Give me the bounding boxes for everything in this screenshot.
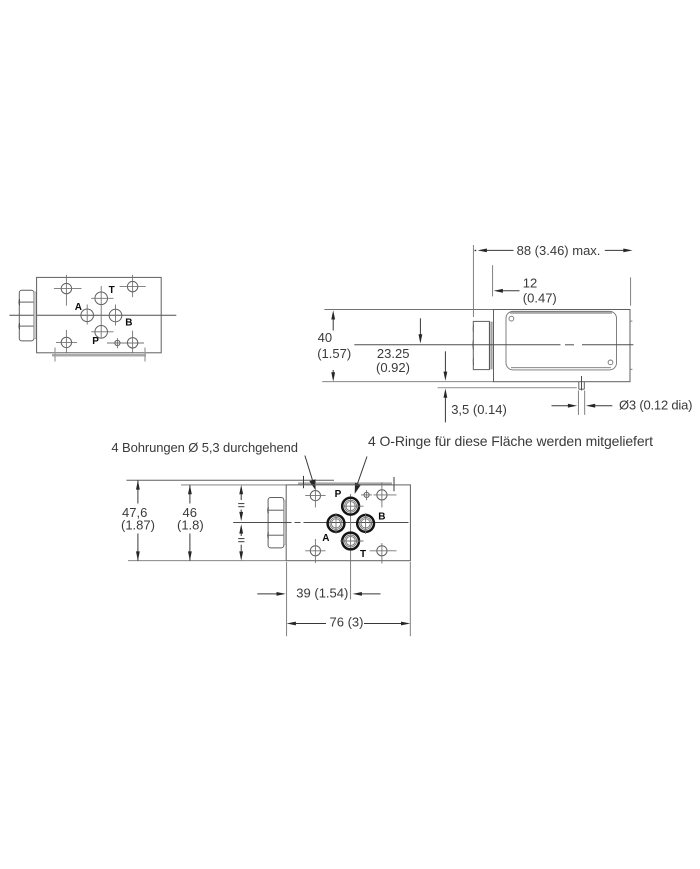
svg-text:B: B [125,317,132,328]
svg-text:88 (3.46) max.: 88 (3.46) max. [517,243,601,258]
svg-text:(1.8): (1.8) [177,518,204,533]
equal-spacing dim lower [239,524,243,533]
dim 76 [287,622,296,626]
right edge tick lower [630,368,633,370]
bottom extension line [128,560,286,562]
pin extension lines [577,391,579,415]
svg-text:4 Bohrungen Ø 5,3 durchgehend: 4 Bohrungen Ø 5,3 durchgehend [111,440,297,455]
svg-text:39 (1.54): 39 (1.54) [296,586,348,601]
hex facet line lower [19,325,34,327]
washer collar [34,292,37,339]
dim 88 left extension line [472,245,474,317]
hex chamfer arc lower [18,323,21,329]
extension line 46 top [181,484,286,486]
dim 88 right extension line [630,277,632,305]
svg-text:12: 12 [523,276,537,291]
bolt hole bottom-right [377,546,387,556]
dim 23.25 arrow [419,318,421,335]
leader to o-ring surface [357,457,367,486]
orifice hole [364,492,369,497]
svg-text:P: P [92,336,99,347]
surface tick left [303,476,305,488]
top view horizontal centerline [9,314,176,316]
top view body [37,277,162,352]
hex chamfer arc upper [18,299,21,305]
svg-text:23.25: 23.25 [377,346,410,361]
svg-text:4 O-Ringe für diese Fläche wer: 4 O-Ringe für diese Fläche werden mitgel… [368,433,653,449]
orifice hole [115,340,120,345]
side view body [494,310,631,382]
dim arrow to body bottom [444,351,446,372]
svg-text:(1.87): (1.87) [121,518,155,533]
dim 88 dimension line and arrows [475,250,477,251]
port B [109,309,122,322]
port A [81,309,94,322]
svg-text:(1.57): (1.57) [317,346,351,361]
svg-text:A: A [322,533,329,544]
port A [328,515,345,532]
dim 39 [257,593,277,595]
dim 40 upper arrow [331,310,335,319]
port P [95,326,108,339]
side view centerline [354,344,560,346]
bolt hole top-left [61,283,71,293]
svg-text:(0.47): (0.47) [523,290,557,305]
svg-text:(0.92): (0.92) [376,360,410,375]
dim 12 dimension line [494,289,503,293]
bolt hole bottom-left [61,337,71,347]
equal-spacing dim upper [239,485,243,494]
surface tick left [54,348,56,362]
extension line 47.6 top [126,479,334,481]
dim 47,6 [137,480,139,503]
port T [95,292,108,305]
hex arc marks [472,325,475,332]
dim 3,5 arrow [444,389,448,398]
mounting surface highlight [52,354,146,357]
port B [357,515,374,532]
dim 76 extension line right [409,562,411,636]
svg-text:T: T [360,549,366,560]
nameplate screw bottom-right [608,360,613,365]
surface tick right [393,477,395,491]
bottom view hex nut [268,498,284,548]
side view hex nut [473,321,489,369]
washer collar [284,501,286,544]
side view top extension line [324,309,493,311]
dim 46 [189,485,191,504]
port P [342,498,359,515]
dim 40 lower arrow [332,370,334,373]
T-P shared vertical centerline [100,286,102,338]
top view hex nut [19,290,34,341]
dim diameter 3 arrows [552,405,570,407]
right edge tick upper [630,320,633,322]
svg-text:76 (3): 76 (3) [330,615,364,630]
svg-text:40: 40 [318,330,332,345]
svg-text:P: P [335,489,342,500]
svg-text:B: B [378,512,385,523]
bolt hole top-right [127,281,137,291]
bottom view body [286,485,410,561]
hex facet line upper [19,301,34,303]
nameplate inner bottom line [511,367,611,369]
locating pin [578,382,580,390]
svg-text:A: A [75,302,82,313]
sealing surface highlight [298,482,392,485]
nameplate top highlight [510,311,612,314]
svg-text:3,5 (0.14): 3,5 (0.14) [451,402,507,417]
pin centerline [581,376,583,391]
surface tick right [144,348,146,362]
nameplate [506,311,617,370]
bottom view centerline [233,522,291,524]
dim 12 extension line [492,265,494,296]
port T [342,533,359,550]
port vertical centerline P-T [350,494,352,599]
bolt hole top-left [310,491,320,501]
dim 39 extension line left [286,562,288,636]
nameplate screw top-left [509,316,514,321]
bolt hole top-right [377,490,387,500]
side view bottom extension line [322,381,493,383]
mounting plane line [438,387,577,389]
svg-text:T: T [109,285,115,296]
svg-text:Ø3 (0.12 dia): Ø3 (0.12 dia) [619,398,692,413]
bolt hole bottom-left [310,546,320,556]
leader to bolt hole [305,456,313,483]
washer lines [489,322,491,370]
bolt hole bottom-right [127,338,137,348]
